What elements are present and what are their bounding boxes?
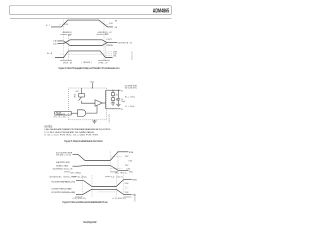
node dashed vertical g1 left [109,151,111,173]
node VOL dash group1 [111,168,123,170]
wire group1 top trace [73,152,129,161]
node mid-level 1.5V dashed line across [66,53,103,55]
node mid dash g2 band [98,191,116,193]
svg-text:OUTPUT A − B: OUTPUT A − B [118,42,132,45]
power VCC stub [91,83,93,88]
wire tHZ measure arrow [111,171,118,173]
wire A/B differential pair bottom trace [58,40,107,44]
capacitor CL [117,90,119,98]
node dashed vertical g2 b [91,175,93,197]
svg-text:Figure 5. Driver Enable/Disabl: Figure 5. Driver Enable/Disable Test Cir… [64,139,103,143]
svg-text:tZL(SHDN): tZL(SHDN) [73,197,86,200]
node VOL dash [106,55,112,57]
svg-text:1/2VO: 1/2VO [106,39,112,41]
svg-text:04933-006: 04933-006 [134,194,136,202]
wire driver output to bus [102,102,105,104]
wire group2 bottom trace [76,189,132,194]
wire generator to gate [71,112,77,114]
wire A/B differential pair top trace [58,41,118,46]
svg-text:S2 CLSD: tPZL: S2 CLSD: tPZL [125,87,137,90]
svg-text:tLZ(SHDN): tLZ(SHDN) [113,197,126,200]
svg-text:A, B OUTPUT LOW: A, B OUTPUT LOW [56,161,70,164]
switch S2 box [112,98,115,101]
svg-text:tPLH, tR: tPLH, tR [63,61,73,64]
svg-text:VOL: VOL [113,55,116,57]
node junction dots [92,88,119,110]
wire tR arrow annotation [61,34,67,36]
wire tZH measure arrow [64,171,70,173]
wire group2 top trace [76,179,132,186]
svg-text:VCROSS: VCROSS [106,45,113,47]
svg-text:VOL: VOL [129,171,133,173]
node VOH dash group1 [111,156,123,158]
node VOH dash [106,51,112,53]
svg-text:1. ALL DELAYS AND TRANSITION T: 1. ALL DELAYS AND TRANSITION TIMES ARE M… [44,128,111,131]
node dashed vertical g2 d [123,175,125,197]
wire tPHL measure arrow [98,59,110,61]
node dashed vertical g2 c [115,175,117,197]
svg-text:RL = 110Ω: RL = 110Ω [125,96,135,98]
svg-text:tZH(SHDN), tZH(1), tZH: tZH(SHDN), tZH(1), tZH [49,175,77,178]
svg-text:15pF: 15pF [121,101,125,103]
wire A-B output trapezoid [55,51,113,58]
node dashed vertical g2 a [81,175,83,197]
node mid-level dash left input edge [59,23,63,25]
node dashed vertical g1 right [117,151,119,173]
wire g2 lower measure arrow left [75,196,82,198]
svg-text:ADM4865: ADM4865 [153,7,170,14]
driver U1 triangle [95,100,102,106]
svg-text:04933-004: 04933-004 [131,51,133,60]
DUT dashed box [69,88,107,120]
svg-text:CL = 50pF: CL = 50pF [125,106,135,108]
node dashed vertical at output rising edge [68,35,70,61]
svg-text:tPHL, tF: tPHL, tF [99,61,109,64]
svg-text:S1: S1 [74,95,76,97]
svg-text:tLZ, tLZ(1): tLZ, tLZ(1) [111,175,123,178]
resistor RL [112,90,114,92]
header rule [10,17,171,19]
svg-text:RL: RL [116,94,118,96]
node mid-level dash output rise [60,53,63,55]
switch S1 box [79,94,85,98]
wire tF arrow annotation [97,33,104,35]
svg-text:Figure 4. Driver Propagation D: Figure 4. Driver Propagation Delay and T… [59,66,120,70]
svg-text:2. CL INCLUDES PROBE AND JIG C: 2. CL INCLUDES PROBE AND JIG CAPACITANCE… [44,131,95,134]
svg-text:RO OUTPUT HIGH RE (DE = VCC): RO OUTPUT HIGH RE (DE = VCC) [52,181,76,183]
switch S1 lever [79,97,82,101]
node dashed vertical at input falling edge [103,20,105,61]
wire group1 bottom trace [73,165,129,170]
svg-text:(A): (A) [53,40,57,43]
svg-text:tHZ, tHZ(1): tHZ, tHZ(1) [115,171,127,174]
svg-text:(B): (B) [53,44,57,46]
wire S1 to driver input [82,101,96,103]
wire output A [106,89,121,91]
ground under CL [116,103,120,105]
svg-text:1/2VO: 1/2VO [105,34,109,36]
node 1.5V dash [106,53,112,55]
notes block [44,127,111,137]
svg-text:Figure 6. Driver and Receiver: Figure 6. Driver and Receiver Enable/Dis… [62,200,108,204]
svg-text:3. S1 = VCC FOR tPZL; S1 = GND: 3. S1 = VCC FOR tPZL; S1 = GND FOR tPZH. [44,134,99,137]
svg-text:VOH: VOH [129,152,134,154]
svg-text:DE (RE = GND): DE (RE = GND) [56,165,68,167]
svg-text:tZL(SHDN), tZL(1), tZL: tZL(SHDN), tZL(1), tZL [53,168,73,171]
wire output B [106,108,121,110]
pulse generator box [55,111,71,115]
svg-text:04933-005: 04933-005 [109,114,111,123]
wire gate output to driver enable [86,105,97,113]
node dashed vertical at output falling edge [105,41,107,61]
node mid dash g2 band refs [125,186,128,188]
svg-text:DE (RE = VCC): DE (RE = VCC) [56,154,71,156]
svg-text:1/2VO: 1/2VO [68,35,72,37]
wire output vertical bus [105,90,107,109]
wire S1 feed from box top [81,88,83,94]
ground under S2 [111,102,115,104]
wire tLZ measure arrow [105,176,111,178]
header tab box [9,6,171,15]
svg-text:| tSKEW |: | tSKEW | [82,61,93,64]
ground DUT box [94,120,96,121]
svg-text:A − B: A − B [47,52,53,55]
svg-text:S2: S2 [116,100,118,102]
wire g2 lower measure arrow right [124,196,131,198]
wire tZL measure arrow [71,176,77,178]
wire tPLH measure arrow [60,59,72,61]
svg-text:RO INPUT HIGH-Z STATE: RO INPUT HIGH-Z STATE [52,188,73,191]
part number ADM4865 [153,7,170,14]
node mid-level dash right input edge [104,23,108,25]
node dashed vertical at input rising edge [62,20,64,61]
svg-text:VOH: VOH [132,179,137,181]
svg-text:CL: CL [121,99,123,101]
svg-text:tZL, tZL(1): tZL, tZL(1) [77,175,86,178]
svg-text:Rev. 0 | Page 9 of 12: Rev. 0 | Page 9 of 12 [83,221,97,224]
svg-text:VCC: VCC [90,81,95,83]
svg-text:tZH, tZH(1): tZH, tZH(1) [71,171,82,174]
gate U2 [78,110,86,117]
wire DI input waveform [51,20,113,27]
svg-text:RO OUTPUT LOW RE (DE = GND): RO OUTPUT LOW RE (DE = GND) [52,192,76,194]
svg-text:tSKEW(1): tSKEW(1) [63,31,72,34]
